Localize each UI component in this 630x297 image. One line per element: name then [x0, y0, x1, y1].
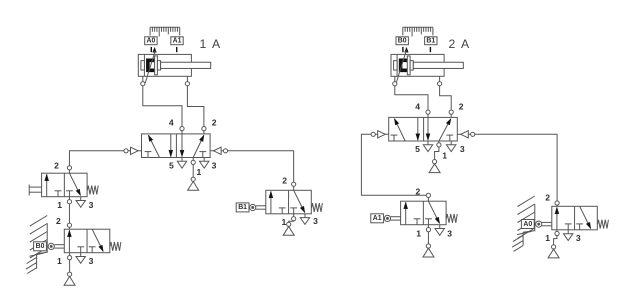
return spring of 1S: [87, 186, 98, 195]
svg-text:A0: A0: [146, 38, 155, 45]
svg-text:3: 3: [447, 228, 452, 238]
svg-text:2: 2: [54, 161, 59, 171]
node A1 port 2: [426, 193, 430, 197]
node start valve port 2: [67, 166, 71, 170]
node B0 port 2: [67, 223, 71, 227]
svg-text:2: 2: [56, 216, 61, 226]
pilot left of 1V (port 14): [124, 147, 138, 154]
svg-text:3: 3: [576, 233, 581, 243]
plunger actuator of 1S: [29, 185, 41, 196]
5/2-way valve 2V: [389, 117, 458, 141]
wire B0 port 1 to supply: [69, 253, 71, 275]
node valve 1V port 2: [202, 127, 206, 131]
position marker under A1: [176, 47, 178, 52]
svg-text:5: 5: [415, 144, 420, 154]
wire B1 port 1 to supply: [289, 214, 294, 225]
svg-text:3: 3: [212, 161, 217, 171]
exhaust at 1S port 3: [76, 197, 85, 208]
pilot right of 1V (port 12): [214, 147, 228, 154]
exhaust at A0 port 3: [564, 230, 573, 241]
compressed air supply for A1: [423, 244, 434, 257]
node cylinder 2A right port: [438, 82, 442, 86]
node valve 2V port 4: [426, 110, 430, 114]
svg-text:A0: A0: [523, 221, 532, 228]
position marker under B0: [403, 47, 408, 52]
sensor label box A1: [171, 37, 183, 45]
node B1 port 2: [292, 182, 296, 186]
roller and label A0: [521, 220, 551, 229]
piston position sensing line: [396, 51, 406, 84]
wall with roller actuating A0: [512, 196, 535, 251]
cylinder 1A (double-acting): [138, 51, 210, 84]
node B1 port 1: [292, 217, 296, 221]
node cylinder 1A left port: [141, 82, 145, 86]
svg-text:B0: B0: [36, 243, 45, 250]
exhaust at B1 port 3: [300, 214, 309, 225]
wire start valve port 2 to left pilot of 1V: [69, 151, 141, 173]
exhaust at 1V port 5: [177, 158, 186, 169]
wire 1S port 1 to B0 port 2: [68, 197, 70, 230]
exhaust at 2V port 5: [423, 141, 432, 152]
wire cylinder 2A right port to valve port 2: [440, 76, 452, 117]
3/2-way roller limit valve A0 (actuated): [552, 206, 598, 230]
position marker under B1: [429, 47, 431, 52]
wall with roller actuating B0: [26, 216, 47, 274]
ruler scale over cylinder 1A: [150, 27, 180, 36]
compressed air supply for B1: [283, 222, 294, 235]
pilot right of 2V (port 12): [461, 131, 475, 138]
wire left pilot of 2V to A1 port 2: [361, 134, 428, 201]
wire cylinder 1A left port to valve port 4: [143, 76, 182, 134]
node 2V port 1: [437, 143, 441, 147]
svg-text:B0: B0: [398, 38, 407, 45]
compressed air supply for 2V: [429, 160, 440, 173]
svg-text:A1: A1: [173, 38, 182, 45]
svg-text:2: 2: [282, 176, 287, 186]
compressed air supply for 1V: [188, 177, 199, 190]
svg-text:1: 1: [545, 233, 550, 243]
3/2-way roller limit valve A1: [401, 201, 447, 225]
wire 1V port 1 to supply: [192, 158, 194, 180]
wire cylinder 2A left port to valve port 4: [395, 76, 428, 117]
position marker under A0: [151, 47, 156, 52]
ruler scale over cylinder 2A: [403, 27, 433, 36]
return spring of A1: [446, 214, 457, 223]
svg-text:3: 3: [89, 256, 94, 266]
node B0 port 1: [68, 256, 72, 260]
sensor label box B1: [425, 37, 437, 45]
3/2-way roller limit valve B1: [266, 190, 312, 214]
svg-text:1: 1: [57, 200, 62, 210]
3/2-way roller limit valve B0 (actuated): [64, 229, 110, 253]
svg-text:2: 2: [416, 186, 421, 196]
cylinder 2A (double-acting): [391, 51, 463, 84]
wire cylinder 1A right port to valve port 2: [187, 76, 204, 134]
node A0 port 1: [555, 231, 559, 235]
node 1V port 1: [191, 160, 195, 164]
3/2-way start valve 1S (plunger, spring return): [42, 173, 88, 197]
exhaust at 2V port 3: [447, 141, 456, 152]
svg-text:2: 2: [545, 192, 550, 202]
return spring of B0: [110, 242, 121, 251]
exhaust at B0 port 3: [76, 253, 85, 264]
svg-text:1 A: 1 A: [200, 37, 222, 51]
node A1 port 1: [426, 228, 430, 232]
svg-text:3: 3: [460, 144, 465, 154]
svg-text:1: 1: [197, 167, 202, 177]
svg-text:B1: B1: [238, 204, 247, 211]
svg-text:5: 5: [169, 161, 174, 171]
svg-text:1: 1: [416, 228, 421, 238]
return spring of B1: [312, 203, 323, 212]
wire 2V port 1 to supply: [435, 141, 439, 162]
wire right pilot of 1V to B1 port 2: [210, 151, 294, 191]
roller and label B1: [236, 203, 266, 212]
svg-text:4: 4: [415, 102, 420, 112]
svg-text:A1: A1: [373, 215, 382, 222]
node valve 2V port 2: [449, 110, 453, 114]
wire A0 port 1 to supply: [554, 230, 557, 247]
sensor label box A0: [145, 37, 157, 45]
svg-text:1: 1: [282, 217, 287, 227]
svg-text:1: 1: [57, 256, 62, 266]
roller and label B0: [34, 242, 65, 251]
roller and label A1: [371, 214, 401, 223]
node A0 port 2: [555, 201, 559, 205]
5/2-way valve 1V: [142, 134, 211, 158]
svg-text:2: 2: [459, 102, 464, 112]
return spring of A0: [598, 220, 609, 229]
exhaust at 1V port 3: [200, 158, 209, 169]
svg-text:2: 2: [212, 117, 217, 127]
node valve 1V port 4: [180, 127, 184, 131]
svg-text:3: 3: [89, 200, 94, 210]
node cylinder 1A right port: [185, 82, 189, 86]
node cylinder 2A left port: [393, 82, 397, 86]
svg-text:4: 4: [169, 117, 174, 127]
piston position sensing line: [145, 51, 155, 84]
sensor label box B0: [396, 37, 408, 45]
exhaust at A1 port 3: [435, 225, 444, 236]
compressed air supply for A0: [548, 245, 559, 258]
svg-text:1: 1: [442, 150, 447, 160]
wire A1 port 1 to supply: [427, 225, 429, 246]
wire right pilot of 2V to A0 port 2: [457, 134, 557, 206]
compressed air supply for B0: [64, 272, 75, 285]
svg-text:3: 3: [313, 216, 318, 226]
node 1S port 1: [67, 200, 71, 204]
svg-text:B1: B1: [426, 38, 435, 45]
pilot left of 2V (port 14): [371, 131, 385, 138]
svg-text:2 A: 2 A: [449, 37, 471, 51]
